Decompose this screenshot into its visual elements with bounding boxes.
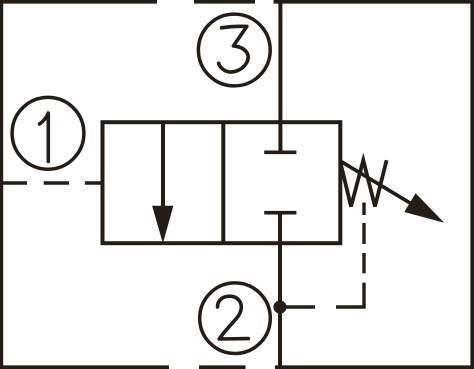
pilot line node 1 (dashed wire) bbox=[2, 181, 103, 184]
pilot line corner dash bbox=[336, 283, 364, 307]
pilot line spring-to-2 vertical dashes bbox=[362, 203, 365, 274]
adjustment arrow shaft bbox=[340, 161, 418, 208]
node 1 port circle bbox=[12, 97, 84, 169]
valve envelope V1 bbox=[103, 122, 341, 243]
label 1 bbox=[40, 113, 49, 161]
label 2 bbox=[218, 296, 249, 339]
boundary bottom wire bbox=[0, 365, 474, 369]
blocked seat bottom T bbox=[264, 211, 296, 215]
flow arrowhead bbox=[152, 206, 173, 244]
port 2 wire bbox=[278, 213, 282, 367]
label 3 bbox=[219, 26, 249, 72]
node 3 port circle bbox=[198, 14, 270, 86]
boundary top wire bbox=[0, 0, 474, 4]
boundary left wire bbox=[0, 0, 3, 369]
blocked seat top T bbox=[264, 151, 296, 155]
junction dot node 2 bbox=[273, 300, 286, 313]
adjustment arrowhead bbox=[404, 193, 444, 223]
envelope divider bbox=[221, 122, 225, 243]
node 2 port circle bbox=[200, 283, 271, 354]
boundary right wire bbox=[470, 0, 474, 369]
flow arrow shaft (left cell) bbox=[161, 122, 165, 208]
port 3 wire bbox=[278, 0, 282, 152]
spring S1 bbox=[341, 160, 387, 206]
pilot line horizontal dash to junction bbox=[284, 305, 315, 308]
